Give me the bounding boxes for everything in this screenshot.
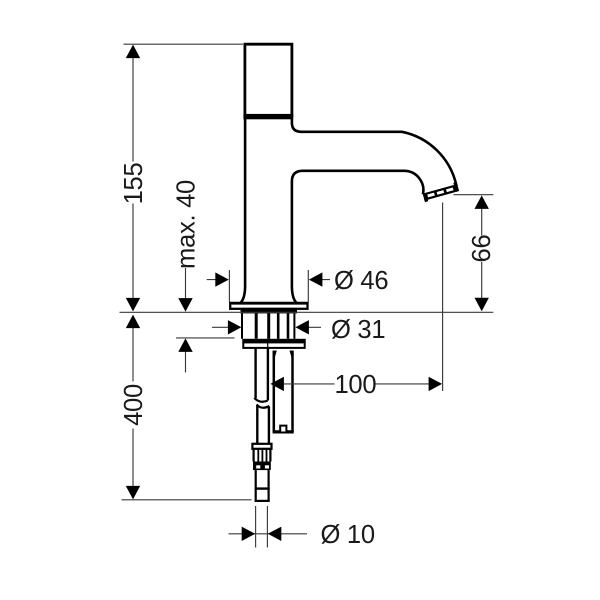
spout outer top edge <box>300 132 457 186</box>
svg-text:max. 40: max. 40 <box>173 180 201 269</box>
mounting surface extension line <box>120 311 494 313</box>
mounting nut <box>242 339 305 343</box>
66 up arrow <box>475 195 489 209</box>
max40 lower reference line <box>176 337 235 339</box>
66 dimension line <box>481 198 483 236</box>
collar <box>252 444 271 449</box>
body left side with flare <box>240 119 245 303</box>
aerator nozzle band <box>422 182 460 202</box>
supply tube upper (left) <box>256 348 268 400</box>
d46 left-pointing arrow (right side) <box>309 272 323 286</box>
d10 extension verticals <box>255 506 257 548</box>
arrowheads <box>126 45 489 541</box>
threaded shank verticals (Ø31 zone) <box>242 313 294 339</box>
top extension line <box>124 43 244 45</box>
escutcheon flange <box>229 303 308 309</box>
bottom extension line <box>122 499 252 501</box>
400 dimension line <box>132 317 134 382</box>
svg-text:Ø 46: Ø 46 <box>334 267 388 295</box>
max40 dimension line <box>185 268 187 310</box>
svg-text:400: 400 <box>120 384 148 426</box>
svg-text:100: 100 <box>335 371 377 399</box>
d46 extension verticals <box>228 270 230 303</box>
handle joint heavy bar <box>243 114 293 119</box>
d10 right-pointing arrow <box>242 527 256 541</box>
400 up arrow <box>126 315 140 329</box>
body right side lower with flare <box>292 181 297 303</box>
pipe break symbol <box>254 398 269 408</box>
d31 left-pointing arrow <box>295 320 309 334</box>
400 down arrow <box>126 486 140 500</box>
d31 leader left <box>212 326 240 328</box>
locknut dark band <box>253 462 271 471</box>
bottom tip <box>255 489 270 501</box>
d31 leader right <box>297 326 321 328</box>
155 up arrow <box>126 45 140 59</box>
100 extension vertical (nozzle axis) <box>442 203 444 392</box>
100 left-pointing arrow <box>270 377 284 391</box>
svg-text:155: 155 <box>120 163 148 205</box>
spout inner bottom edge <box>292 171 423 195</box>
svg-text:Ø 31: Ø 31 <box>331 316 385 344</box>
max40 down arrow <box>178 298 192 312</box>
d46 leader left <box>207 279 228 281</box>
dimension graphics <box>120 44 494 547</box>
pull rod (right) <box>274 351 293 432</box>
black band below flange <box>241 309 298 313</box>
d31 right-pointing arrow <box>228 320 242 334</box>
d10 dimension line <box>229 533 308 535</box>
100 right-pointing arrow <box>429 377 443 391</box>
rod top chamfers <box>273 351 294 358</box>
66 down arrow <box>475 298 489 312</box>
supply tube lower <box>257 406 269 445</box>
d46 leader right <box>310 279 331 281</box>
d46 right-pointing arrow (left side) <box>215 272 229 286</box>
155 dimension line <box>132 47 134 162</box>
rod bottom with notch <box>273 426 294 432</box>
svg-text:66: 66 <box>468 235 496 263</box>
threaded tip section <box>254 449 271 462</box>
66 top extension line <box>454 194 494 196</box>
faucet handle cap <box>245 44 292 117</box>
svg-text:Ø 10: Ø 10 <box>321 521 375 549</box>
lower section <box>255 470 270 489</box>
body right side upper (to spout top fillet) <box>292 119 302 132</box>
100 dimension line <box>272 383 335 385</box>
d10 left-pointing arrow <box>268 527 282 541</box>
155 down arrow <box>126 298 140 312</box>
max40 up arrow <box>178 338 192 352</box>
